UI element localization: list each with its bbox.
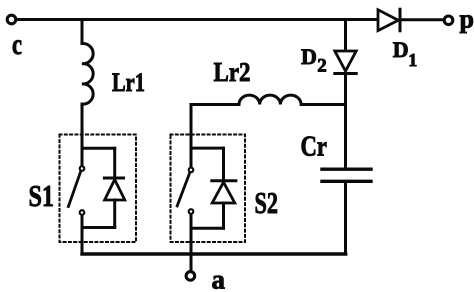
S1 bottom tee wire — [82, 226, 115, 229]
S1 switch top contact — [80, 166, 85, 171]
S2 anti-parallel diode (pointing up) — [212, 181, 236, 229]
svg-text:c: c — [12, 28, 22, 61]
inductor Lr1 — [82, 43, 93, 104]
wire D2/Lr2 node to Cr — [344, 105, 347, 169]
S2 switch bottom contact — [189, 209, 194, 214]
diode D2 (pointing down) — [335, 51, 356, 105]
switch module S1 dashed box — [60, 135, 137, 243]
svg-text:S2: S2 — [255, 185, 279, 220]
bottom rail wire — [82, 252, 346, 255]
S1 switch blade — [68, 173, 80, 207]
wire top to D2 — [344, 20, 347, 52]
S2 switch blade — [177, 174, 189, 206]
S1 switch: wire to top contact — [81, 148, 84, 165]
label D1 — [393, 37, 417, 70]
svg-text:Lr2: Lr2 — [214, 57, 251, 87]
label Lr1 — [112, 68, 145, 97]
label D2 — [301, 44, 327, 77]
svg-text:D: D — [301, 44, 317, 69]
top wire c to D1 — [17, 18, 378, 21]
svg-text:p: p — [460, 5, 474, 34]
S1 anti-parallel diode (pointing up) — [104, 178, 124, 228]
S1 switch: wire from bottom contact — [81, 216, 84, 228]
terminal a — [186, 272, 195, 281]
svg-text:Lr1: Lr1 — [112, 68, 145, 97]
label c — [12, 28, 22, 61]
svg-text:S1: S1 — [29, 178, 55, 213]
S2 diode branch top wire — [222, 148, 225, 179]
capacitor Cr — [322, 169, 371, 254]
S2 switch top contact — [189, 168, 194, 173]
diode D1 (pointing right) — [378, 9, 400, 31]
S1 diode branch top wire — [113, 148, 116, 176]
svg-text:Cr: Cr — [301, 132, 328, 163]
wire S2 to bottom rail and terminal a — [190, 228, 193, 270]
S1 switch bottom contact — [80, 210, 85, 215]
svg-text:D: D — [393, 37, 409, 62]
S2 top tee wire — [191, 147, 224, 150]
S2 bottom tee wire — [191, 227, 224, 230]
label Lr2 — [214, 57, 251, 87]
wire S1 to bottom rail — [81, 228, 84, 255]
terminal c — [7, 15, 16, 24]
svg-text:1: 1 — [408, 50, 417, 70]
S2 switch: wire to top contact — [190, 148, 193, 167]
label Cr — [301, 132, 328, 163]
inductor Lr2 — [191, 95, 346, 104]
label S2 — [255, 185, 279, 220]
switch module S2 dashed box — [171, 135, 246, 243]
label p — [460, 5, 474, 34]
svg-text:a: a — [212, 265, 226, 292]
node: Lr1 junction on top wire — [81, 20, 84, 44]
wire Lr2 to S2 — [190, 105, 193, 149]
label a — [212, 265, 226, 292]
label S1 — [29, 178, 55, 213]
S2 switch: wire from bottom contact — [190, 215, 193, 228]
wire D1 to terminal p — [400, 18, 443, 21]
terminal p — [444, 16, 453, 25]
svg-text:2: 2 — [317, 56, 327, 77]
wire Lr1 to S1 — [81, 104, 84, 148]
S1 top tee wire — [82, 147, 115, 150]
